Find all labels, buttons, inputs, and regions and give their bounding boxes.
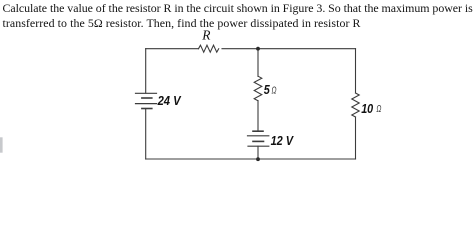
wire right vertical upper bbox=[355, 49, 357, 93]
wire bottom bbox=[146, 158, 356, 160]
wire left vertical lower bbox=[145, 109, 147, 160]
svg-text:24 V: 24 V bbox=[157, 93, 182, 108]
wire middle between R2 and V2 bbox=[257, 101, 259, 131]
resistor R3 10ohm bbox=[352, 93, 359, 117]
svg-text:10: 10 bbox=[361, 101, 374, 116]
wire middle lower bbox=[257, 146, 259, 159]
resistor R bbox=[199, 45, 219, 52]
resistor R2 5ohm bbox=[254, 76, 262, 100]
svg-text:Ω: Ω bbox=[272, 85, 277, 96]
wire top-left segment bbox=[146, 48, 199, 50]
svg-text:12 V: 12 V bbox=[271, 133, 295, 148]
svg-text:R: R bbox=[201, 28, 211, 43]
wire middle upper bbox=[257, 49, 259, 76]
svg-text:5: 5 bbox=[264, 82, 271, 97]
battery V2 12V bbox=[248, 131, 269, 146]
node junction top bbox=[256, 47, 260, 51]
wire top-right segment bbox=[222, 48, 356, 50]
scrollbar artifact bbox=[0, 137, 3, 152]
battery V1 24V bbox=[136, 93, 157, 108]
wire left vertical upper bbox=[145, 49, 147, 93]
wire right vertical lower bbox=[355, 117, 357, 159]
node junction bottom bbox=[256, 157, 260, 161]
svg-text:Ω: Ω bbox=[376, 104, 381, 115]
